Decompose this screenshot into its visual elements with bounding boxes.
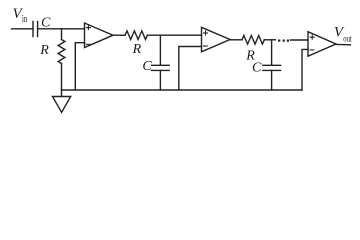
wire U3 output Vout [336, 44, 351, 46]
resistor R3 (series) [242, 36, 264, 45]
capacitor C3 (shunt) [263, 65, 281, 70]
svg-text:R: R [132, 42, 142, 57]
wire R3 to dots [264, 39, 275, 41]
wire dots to op-amp U3 + input [291, 39, 309, 41]
wire cap to op-amp U1 + input [38, 28, 85, 30]
pin - of U3 [310, 49, 314, 51]
svg-text:in: in [22, 14, 27, 25]
wire U2 output [230, 39, 242, 41]
capacitor C1 (series input cap) [33, 22, 38, 37]
ground [53, 90, 71, 112]
label Vin [13, 6, 28, 25]
pin + of U2 [204, 31, 208, 35]
op-amp U1 [85, 23, 114, 48]
wire U1 output [113, 34, 125, 36]
svg-text:R: R [39, 43, 49, 58]
wire U2 - input feedback to ground rail [179, 47, 202, 91]
pin - of U2 [204, 45, 208, 47]
svg-text:C: C [41, 15, 51, 30]
resistor R2 (series) [125, 31, 147, 40]
resistor R1 (shunt) [58, 40, 65, 64]
wire U1 - input feedback to ground rail [75, 43, 84, 90]
wire C3 bottom to ground rail [271, 70, 273, 90]
wire U3 - input feedback to ground rail [302, 49, 308, 90]
op-amp U3 [308, 32, 336, 57]
node B junction to C2 [159, 35, 161, 65]
pin + of U3 [310, 35, 314, 39]
svg-text:C: C [252, 61, 262, 76]
node C junction to C3 [271, 40, 273, 66]
label Vout [334, 25, 352, 44]
wire C2 bottom to ground rail [159, 70, 161, 90]
svg-text:out: out [343, 33, 352, 43]
wire input segment [12, 28, 34, 30]
wire R1 bottom to ground rail [61, 64, 63, 91]
wire R2 to op-amp U2 + input [147, 34, 201, 36]
pin + of U1 [86, 26, 90, 30]
ellipsis dots continuation [278, 40, 289, 42]
op-amp U2 [202, 27, 231, 52]
capacitor C2 (shunt) [152, 65, 170, 70]
pin - of U1 [86, 43, 90, 45]
svg-text:C: C [142, 59, 152, 74]
node A junction to R1 [61, 29, 63, 40]
wire ground rail [62, 89, 303, 91]
